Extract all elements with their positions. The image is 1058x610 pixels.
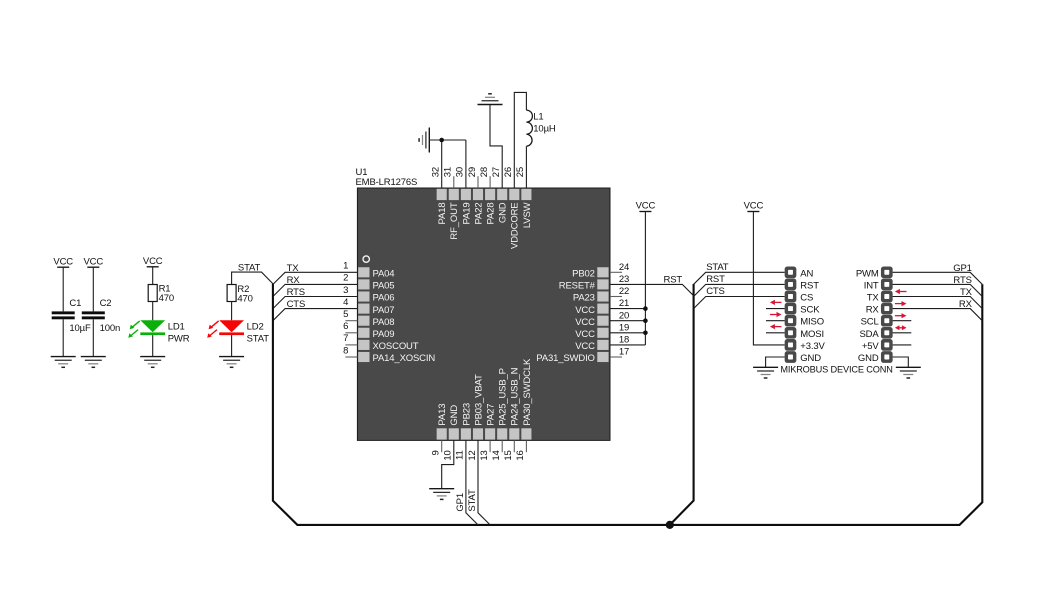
svg-text:MOSI: MOSI: [800, 329, 824, 340]
svg-text:3: 3: [343, 285, 348, 296]
resistor R2: [227, 285, 236, 302]
svg-text:21: 21: [619, 298, 629, 309]
svg-text:11: 11: [455, 450, 466, 460]
svg-text:19: 19: [619, 322, 629, 333]
svg-text:VCC: VCC: [575, 329, 595, 340]
svg-text:TX: TX: [867, 293, 880, 304]
power flag VCC (R1): [143, 256, 163, 267]
svg-text:PA04: PA04: [373, 269, 395, 280]
svg-text:+5V: +5V: [862, 341, 880, 352]
svg-text:PA14_XOSCIN: PA14_XOSCIN: [373, 353, 436, 364]
svg-text:12: 12: [467, 450, 478, 460]
junction pin21: [643, 306, 648, 311]
svg-text:470: 470: [237, 294, 252, 305]
svg-text:RF_OUT: RF_OUT: [449, 202, 460, 239]
svg-text:31: 31: [443, 167, 454, 177]
svg-text:VCC: VCC: [744, 201, 764, 212]
svg-text:C2: C2: [100, 298, 112, 309]
svg-text:PB23: PB23: [461, 403, 472, 426]
wire ground to pin27: [490, 105, 502, 189]
svg-text:13: 13: [479, 450, 490, 460]
wire R1 to LD1: [152, 302, 154, 321]
bus wrap-around: [273, 284, 982, 525]
svg-text:PA05: PA05: [373, 281, 395, 292]
ground (PA18/PA19, rotated): [419, 128, 429, 153]
wire TX pin1 to bus: [273, 272, 358, 284]
svg-text:1: 1: [343, 261, 348, 272]
svg-text:MISO: MISO: [800, 317, 824, 328]
wire VCC to R1: [152, 267, 154, 284]
svg-text:10µF: 10µF: [69, 323, 91, 334]
power flag VCC (mikrobus): [744, 201, 764, 212]
svg-text:29: 29: [467, 167, 478, 177]
power flag VCC (U1): [636, 201, 656, 212]
svg-text:9: 9: [431, 450, 442, 455]
arrow SCL out: [895, 313, 907, 318]
svg-text:5: 5: [343, 309, 348, 320]
svg-text:INT: INT: [864, 280, 879, 291]
svg-text:7: 7: [343, 333, 348, 344]
wire L1 to pin25 LVSW: [525, 146, 527, 188]
wire SCL stub: [893, 320, 912, 322]
wire RX pin2 to bus: [273, 284, 358, 296]
bus middle branch: [670, 284, 694, 525]
IC U1 body: [357, 188, 610, 440]
junction pin20: [643, 318, 648, 323]
svg-text:RST: RST: [706, 274, 725, 285]
IC U1 unconnected pin stubs: [345, 176, 622, 452]
svg-text:RESET#: RESET#: [559, 281, 596, 292]
svg-text:STAT: STAT: [706, 262, 729, 273]
wire ground rail pins 32,30: [429, 140, 466, 188]
svg-text:C1: C1: [69, 298, 81, 309]
svg-text:RST: RST: [664, 274, 683, 285]
connector J2 mikrobus right header: [881, 266, 893, 362]
junction pin32: [439, 138, 444, 143]
svg-text:VCC: VCC: [575, 305, 595, 316]
svg-text:8: 8: [343, 345, 348, 356]
svg-text:CTS: CTS: [706, 286, 725, 297]
wire STAT bus to AN: [694, 272, 785, 284]
arrow SDA bidir: [895, 325, 907, 330]
svg-text:470: 470: [159, 293, 174, 304]
wire RX to bus: [893, 309, 983, 321]
wire VCC to +3.3V pin: [753, 212, 784, 345]
svg-text:SCK: SCK: [800, 305, 820, 316]
power flag VCC (C2): [83, 256, 103, 267]
svg-text:GND: GND: [800, 353, 821, 364]
svg-text:25: 25: [515, 167, 526, 177]
ground (LD1): [140, 357, 165, 368]
arrow MISO out: [770, 312, 782, 317]
svg-text:PA28: PA28: [486, 203, 497, 225]
wire PB23 pin11 to bus (GP1): [466, 440, 478, 525]
svg-text:18: 18: [619, 335, 629, 346]
svg-text:LD1: LD1: [168, 321, 185, 332]
svg-text:CS: CS: [800, 293, 813, 304]
svg-text:PA09: PA09: [373, 329, 395, 340]
svg-text:28: 28: [479, 167, 490, 177]
wire RTS pin3 to bus: [273, 297, 358, 309]
svg-text:SDA: SDA: [860, 329, 880, 340]
wire MOSI stub: [766, 332, 785, 334]
svg-text:PB02: PB02: [572, 269, 595, 280]
svg-text:VCC: VCC: [143, 256, 163, 267]
svg-text:GND: GND: [498, 202, 509, 223]
ground (right header): [896, 367, 921, 378]
svg-text:17: 17: [619, 347, 629, 358]
wire LD2 to ground: [231, 335, 233, 357]
svg-text:PB03_VBAT: PB03_VBAT: [473, 374, 484, 426]
ground (pin10): [429, 489, 454, 500]
svg-text:27: 27: [491, 167, 502, 177]
svg-text:16: 16: [515, 450, 526, 460]
svg-text:GND: GND: [858, 353, 879, 364]
wire CTS bus to CS: [694, 297, 785, 309]
wire +5V stub: [893, 344, 912, 346]
wire GND pin10 to ground: [442, 440, 454, 488]
wire RESET# pin23 to bus: [610, 284, 694, 295]
svg-text:100n: 100n: [100, 323, 121, 334]
connector J2 pin labels: [856, 268, 880, 364]
svg-text:14: 14: [491, 450, 502, 460]
wire CTS pin4 to bus: [273, 309, 358, 321]
svg-text:L1: L1: [533, 112, 543, 123]
IC U1 pads: [358, 189, 608, 440]
wire PWM to bus (GP1): [893, 272, 983, 284]
svg-text:VCC: VCC: [575, 341, 595, 352]
IC U1 pin numbers: [343, 167, 629, 461]
arrow SCK in: [770, 300, 782, 305]
svg-text:VDDCORE: VDDCORE: [510, 203, 521, 249]
svg-text:LVSW: LVSW: [522, 202, 533, 228]
bus junction: [666, 521, 674, 529]
svg-text:GP1: GP1: [455, 493, 466, 512]
svg-text:PA13: PA13: [437, 404, 448, 426]
svg-text:22: 22: [619, 286, 629, 297]
wire MISO stub: [766, 320, 785, 322]
wire R2 to LD2: [231, 302, 233, 321]
svg-text:26: 26: [503, 167, 514, 177]
svg-text:23: 23: [619, 274, 629, 285]
svg-text:PA25_USB_P: PA25_USB_P: [498, 368, 509, 425]
ground (C1): [51, 357, 76, 368]
svg-text:VCC: VCC: [53, 256, 73, 267]
svg-text:AN: AN: [800, 268, 813, 279]
svg-text:20: 20: [619, 310, 629, 321]
wire LD1 to ground: [152, 335, 154, 357]
ground (LD2): [219, 357, 244, 368]
wire GND pin to ground (left header): [766, 357, 785, 367]
svg-text:15: 15: [503, 450, 514, 460]
connector J1 pin labels: [800, 268, 825, 364]
svg-text:XOSCOUT: XOSCOUT: [373, 341, 419, 352]
svg-text:6: 6: [343, 321, 348, 332]
ground (GND pin27, flipped): [478, 94, 503, 105]
wire INT to bus (RTS): [893, 284, 983, 296]
wire GND pin to ground (right header): [893, 357, 909, 367]
svg-text:EMB-LR1276S: EMB-LR1276S: [356, 177, 418, 188]
connector J1 mikrobus left header: [785, 266, 797, 362]
svg-text:PA19: PA19: [461, 203, 472, 225]
IC U1 pin names: [373, 202, 596, 425]
LED LD2 emission arrows: [207, 321, 218, 338]
wire VCC rail pins 21-18: [610, 212, 645, 345]
svg-text:RST: RST: [800, 280, 819, 291]
wire VCC to C1: [62, 268, 64, 312]
svg-text:PA30_SWDCLK: PA30_SWDCLK: [522, 358, 533, 426]
wire STAT to R2 and bus entry: [232, 272, 273, 284]
arrow MOSI in: [770, 324, 782, 329]
resistor R1: [148, 285, 157, 302]
svg-text:SCL: SCL: [861, 317, 879, 328]
svg-text:STAT: STAT: [247, 333, 270, 344]
ground (C2): [81, 357, 106, 368]
wire PB03 pin12 to bus (STAT): [478, 440, 490, 525]
svg-text:PA06: PA06: [373, 293, 395, 304]
svg-text:VCC: VCC: [83, 256, 103, 267]
svg-text:24: 24: [619, 262, 629, 273]
svg-text:PA31_SWDIO: PA31_SWDIO: [536, 353, 595, 364]
LED LD1: [140, 320, 165, 335]
svg-text:2: 2: [343, 273, 348, 284]
arrow RX out: [895, 301, 907, 306]
svg-text:10: 10: [443, 450, 454, 460]
inductor L1: [526, 110, 532, 146]
IC U1 pin-1 indicator: [363, 256, 369, 262]
svg-text:LD2: LD2: [247, 321, 264, 332]
LED LD2: [219, 320, 244, 335]
power flag VCC (C1): [53, 256, 73, 267]
arrow TX in: [895, 289, 907, 294]
ground (left header): [753, 367, 778, 378]
svg-text:PWR: PWR: [168, 333, 190, 344]
svg-text:PA08: PA08: [373, 317, 395, 328]
svg-text:RX: RX: [866, 305, 880, 316]
svg-text:PA24_USB_N: PA24_USB_N: [510, 367, 521, 425]
svg-text:PA07: PA07: [373, 305, 395, 316]
capacitor C1: [52, 311, 75, 319]
svg-text:PA18: PA18: [437, 203, 448, 225]
wire RST bus to RST: [694, 284, 785, 296]
svg-text:GND: GND: [449, 405, 460, 426]
wire C2 to ground: [92, 319, 94, 356]
svg-text:VCC: VCC: [636, 201, 656, 212]
capacitor C2: [82, 311, 105, 319]
svg-text:STAT: STAT: [467, 489, 478, 512]
wire TX to bus: [893, 297, 983, 309]
wire C1 to ground: [62, 319, 64, 356]
svg-text:PA27: PA27: [486, 404, 497, 426]
wire pin26 VDDCORE to L1 top: [514, 92, 526, 188]
wire SCK stub: [766, 308, 785, 310]
svg-text:VCC: VCC: [575, 317, 595, 328]
svg-text:30: 30: [455, 167, 466, 177]
svg-text:+3.3V: +3.3V: [800, 341, 825, 352]
svg-text:10µH: 10µH: [533, 124, 556, 135]
svg-text:PA22: PA22: [473, 203, 484, 225]
svg-text:4: 4: [343, 297, 348, 308]
LED LD1 emission arrows: [128, 321, 139, 338]
junction pin19: [643, 331, 648, 336]
wire VCC to C2: [92, 268, 94, 312]
svg-text:32: 32: [431, 167, 442, 177]
svg-text:MIKROBUS DEVICE CONN: MIKROBUS DEVICE CONN: [780, 364, 892, 374]
wire SDA stub: [893, 332, 912, 334]
svg-text:PA23: PA23: [573, 293, 595, 304]
svg-text:PWM: PWM: [856, 268, 879, 279]
